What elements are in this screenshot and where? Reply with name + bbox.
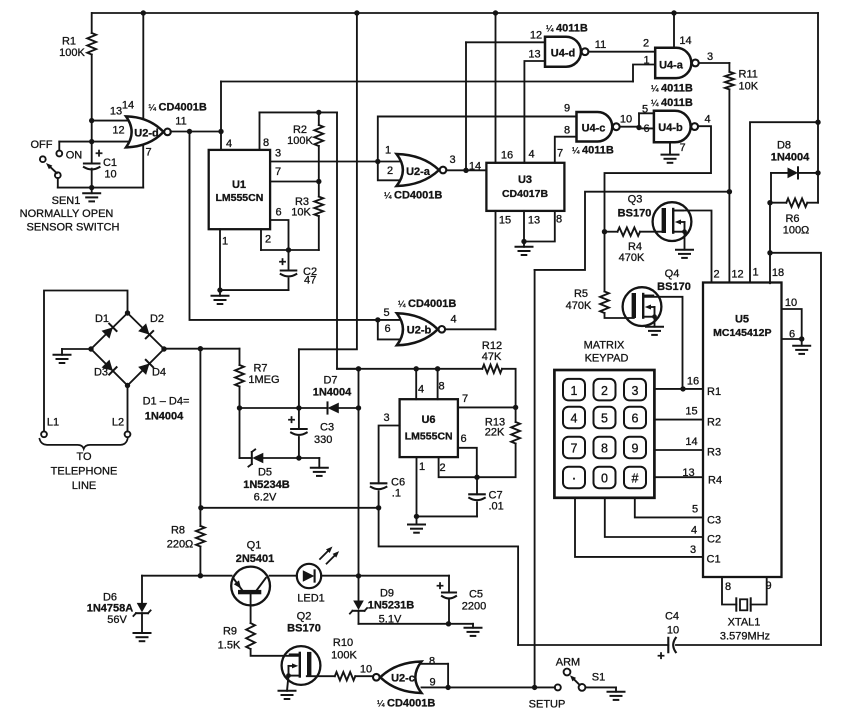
svg-text:3: 3 [707,51,713,63]
svg-text:3: 3 [383,412,389,424]
svg-text:SEN1: SEN1 [52,195,81,207]
svg-text:1: 1 [643,55,649,67]
svg-text:7: 7 [557,148,563,160]
svg-text:9: 9 [564,103,570,115]
svg-text:6.2V: 6.2V [254,492,277,504]
svg-text:3: 3 [275,148,281,160]
svg-text:¼ 4011B: ¼ 4011B [651,83,693,95]
svg-text:1: 1 [752,267,758,279]
svg-text:5: 5 [642,104,648,116]
svg-text:6: 6 [275,207,281,219]
svg-text:2: 2 [439,462,445,474]
svg-text:Q1: Q1 [247,540,262,552]
svg-text:MC145412P: MC145412P [713,327,771,339]
svg-text:6: 6 [789,329,795,341]
svg-text:8: 8 [564,125,570,137]
svg-text:15: 15 [685,406,697,418]
svg-text:2200: 2200 [462,601,486,613]
svg-text:.1: .1 [392,488,401,500]
svg-text:D1: D1 [95,313,109,325]
svg-text:.01: .01 [489,501,504,513]
svg-text:1: 1 [571,384,578,398]
svg-text:D7: D7 [323,375,337,387]
svg-text:·: · [572,470,577,487]
svg-text:10: 10 [360,664,372,676]
svg-text:U4-d: U4-d [551,48,575,60]
svg-text:13: 13 [110,106,122,118]
svg-text:10K: 10K [291,207,311,219]
svg-text:+: + [279,254,287,269]
svg-text:D5: D5 [258,467,272,479]
svg-text:S1: S1 [592,672,605,684]
svg-text:100K: 100K [59,47,85,59]
svg-text:Q4: Q4 [665,268,680,280]
svg-text:SETUP: SETUP [529,699,566,711]
svg-text:C3: C3 [707,515,721,527]
svg-text:U6: U6 [421,414,435,426]
svg-text:+: + [657,648,665,663]
svg-text:16: 16 [687,376,699,388]
svg-text:U4-a: U4-a [659,60,684,72]
svg-text:Q3: Q3 [628,194,643,206]
svg-text:4: 4 [691,525,697,537]
svg-text:R10: R10 [333,637,353,649]
svg-text:R3: R3 [707,447,721,459]
svg-text:2N5401: 2N5401 [236,553,275,565]
svg-text:220Ω: 220Ω [167,539,194,551]
svg-text:D4: D4 [152,367,166,379]
svg-text:13: 13 [682,467,694,479]
svg-text:1: 1 [385,145,391,157]
svg-text:22K: 22K [485,427,505,439]
svg-text:7: 7 [679,142,685,154]
svg-text:ON: ON [66,150,83,162]
svg-text:¼ CD4001B: ¼ CD4001B [398,298,456,310]
svg-text:U2-b: U2-b [407,325,432,337]
svg-text:2: 2 [601,384,608,398]
svg-text:XTAL1: XTAL1 [728,617,761,629]
svg-text:L2: L2 [112,417,124,429]
svg-text:U4-c: U4-c [582,123,606,135]
svg-text:14: 14 [679,35,691,47]
svg-text:TELEPHONE: TELEPHONE [51,466,118,478]
svg-text:9: 9 [632,442,639,456]
svg-text:12: 12 [731,269,743,281]
svg-text:R2: R2 [707,417,721,429]
svg-text:U4-b: U4-b [658,122,683,134]
svg-text:¼ 4011B: ¼ 4011B [572,145,614,157]
svg-text:ARM: ARM [556,657,580,669]
svg-text:+: + [288,412,296,427]
svg-text:47K: 47K [482,351,502,363]
svg-text:14: 14 [685,436,697,448]
svg-text:18: 18 [772,267,784,279]
svg-text:1N4004: 1N4004 [313,387,352,399]
svg-text:3: 3 [449,154,455,166]
svg-text:13: 13 [528,215,540,227]
svg-text:7: 7 [275,166,281,178]
svg-text:8: 8 [438,381,444,393]
svg-text:KEYPAD: KEYPAD [585,353,629,365]
svg-text:3: 3 [632,384,639,398]
svg-text:3: 3 [690,544,696,556]
svg-text:56V: 56V [107,614,127,626]
svg-text:R7: R7 [253,363,267,375]
svg-text:16: 16 [501,150,513,162]
svg-text:4: 4 [418,384,424,396]
svg-text:#: # [632,472,639,486]
svg-text:10: 10 [620,114,632,126]
svg-text:330: 330 [314,434,332,446]
svg-text:C1: C1 [707,554,721,566]
svg-text:6: 6 [384,323,390,335]
svg-text:R1: R1 [707,386,721,398]
svg-text:R6: R6 [785,213,799,225]
svg-text:R1: R1 [62,36,76,48]
svg-text:BS170: BS170 [618,208,652,220]
svg-text:TO: TO [76,451,92,463]
svg-text:6: 6 [632,412,639,426]
svg-text:D3: D3 [94,367,108,379]
svg-text:6: 6 [460,433,466,445]
svg-text:C2: C2 [707,534,721,546]
svg-text:LM555CN: LM555CN [405,431,453,443]
svg-text:8: 8 [429,656,435,668]
svg-text:5: 5 [692,504,698,516]
svg-text:2: 2 [387,165,393,177]
svg-text:D8: D8 [777,140,791,152]
svg-text:100K: 100K [331,650,357,662]
svg-text:11: 11 [175,116,186,128]
svg-text:¼ 4011B: ¼ 4011B [546,23,588,35]
svg-text:¼ CD4001B: ¼ CD4001B [149,102,207,114]
svg-text:10: 10 [667,625,679,637]
svg-text:¼ CD4001B: ¼ CD4001B [384,190,442,202]
svg-text:1: 1 [222,236,228,248]
svg-text:MATRIX: MATRIX [584,340,625,352]
svg-text:U3: U3 [518,174,532,186]
svg-text:4: 4 [528,149,534,161]
svg-text:D9: D9 [380,588,394,600]
svg-text:BS170: BS170 [657,281,691,293]
svg-text:R11: R11 [739,69,758,81]
svg-text:47: 47 [304,275,316,287]
svg-text:D2: D2 [150,313,164,325]
svg-text:15: 15 [499,215,511,227]
svg-text:OFF: OFF [31,139,53,151]
svg-text:8: 8 [556,214,562,226]
svg-text:5.1V: 5.1V [379,614,402,626]
svg-text:SENSOR SWITCH: SENSOR SWITCH [27,222,120,234]
svg-text:1N5231B: 1N5231B [368,600,415,612]
svg-text:LINE: LINE [72,480,96,492]
svg-text:1: 1 [419,461,425,473]
svg-text:NORMALLY OPEN: NORMALLY OPEN [20,208,114,220]
svg-text:U5: U5 [735,314,749,326]
svg-text:4: 4 [704,114,710,126]
svg-text:14: 14 [469,161,481,173]
svg-text:11: 11 [595,39,606,51]
svg-text:U1: U1 [232,179,246,191]
svg-text:4: 4 [450,314,456,326]
svg-text:0: 0 [601,472,608,486]
svg-text:9: 9 [765,580,771,592]
svg-text:2: 2 [643,38,649,50]
svg-text:470K: 470K [619,252,645,264]
svg-text:C4: C4 [665,611,679,623]
svg-text:C3: C3 [320,422,334,434]
svg-text:U2-d: U2-d [134,128,158,140]
svg-text:7: 7 [571,442,578,456]
svg-text:U2-c: U2-c [391,673,415,685]
svg-text:U2-a: U2-a [406,166,431,178]
svg-text:¼ 4011B: ¼ 4011B [651,97,693,109]
svg-text:1N4004: 1N4004 [771,152,810,164]
svg-text:8: 8 [601,442,608,456]
svg-text:5: 5 [601,412,608,426]
svg-text:4: 4 [571,412,578,426]
svg-text:1N4004: 1N4004 [145,411,184,423]
svg-text:1N4758A: 1N4758A [87,603,134,615]
svg-text:10K: 10K [739,81,759,93]
svg-text:R5: R5 [574,288,588,300]
svg-text:CD4017B: CD4017B [502,188,549,200]
svg-text:Q2: Q2 [297,611,312,623]
svg-text:2: 2 [713,269,719,281]
svg-text:7: 7 [462,393,468,405]
svg-text:100Ω: 100Ω [783,225,810,237]
svg-text:1MEG: 1MEG [248,374,279,386]
svg-text:13: 13 [528,49,540,61]
svg-text:10: 10 [104,169,116,181]
svg-text:+: + [436,578,444,593]
svg-text:470K: 470K [566,300,592,312]
svg-text:12: 12 [112,125,124,137]
svg-text:BS170: BS170 [287,623,321,635]
svg-text:L1: L1 [47,417,59,429]
svg-text:D1 – D4=: D1 – D4= [143,396,190,408]
svg-text:LED1: LED1 [297,593,325,605]
svg-text:C1: C1 [103,157,117,169]
svg-text:1N5234B: 1N5234B [243,479,290,491]
svg-text:R4: R4 [708,475,722,487]
svg-text:LM555CN: LM555CN [215,192,263,204]
svg-text:8: 8 [725,581,731,593]
svg-text:3.579MHz: 3.579MHz [720,631,770,643]
svg-text:5: 5 [383,307,389,319]
svg-text:9: 9 [429,677,435,689]
svg-text:R9: R9 [223,626,237,638]
svg-text:2: 2 [265,234,271,246]
svg-text:10: 10 [785,297,797,309]
svg-text:14: 14 [122,100,134,112]
svg-text:¼ CD4001B: ¼ CD4001B [377,698,435,710]
svg-text:1.5K: 1.5K [218,640,241,652]
svg-text:6: 6 [643,123,649,135]
svg-text:R8: R8 [171,525,185,537]
svg-text:C5: C5 [469,589,483,601]
svg-text:12: 12 [530,30,542,42]
svg-text:7: 7 [145,147,151,159]
svg-text:4: 4 [226,138,232,150]
svg-text:100K: 100K [287,135,313,147]
svg-text:8: 8 [263,137,269,149]
